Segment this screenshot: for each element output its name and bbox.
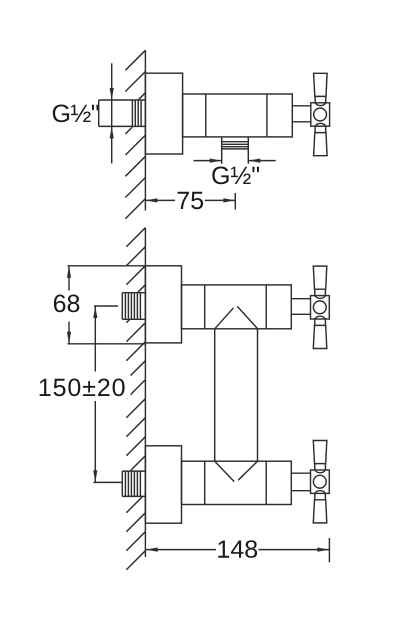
handle stem (lower valve) bbox=[291, 472, 310, 474]
dimension G1/2 pipe diameter bbox=[111, 63, 113, 163]
wall hatching (top view) bbox=[125, 50, 145, 70]
cross handle (top view) bbox=[311, 73, 330, 155]
label G1/2 inch (inlet) bbox=[53, 105, 99, 123]
dimension 150 plus/minus 20 (valve spacing) bbox=[94, 305, 118, 307]
wall escutcheon (lower valve) bbox=[145, 446, 181, 523]
label G1/2 inch (outlet) bbox=[212, 167, 259, 185]
dimension 68 (escutcheon height) bbox=[68, 265, 146, 267]
label 75 bbox=[178, 192, 204, 209]
wall line (bottom view) bbox=[144, 228, 146, 558]
lower chevron (pipe break) bbox=[215, 461, 235, 481]
dimension outlet G1/2 bbox=[194, 160, 222, 162]
valve body (upper valve) bbox=[182, 285, 292, 329]
threaded union behind wall (upper valve) bbox=[122, 292, 145, 294]
threaded union behind wall (lower valve) bbox=[122, 470, 145, 472]
connecting riser pipe bbox=[214, 329, 216, 461]
wall hatching (bottom view) bbox=[126, 228, 145, 247]
handle stem (upper valve) bbox=[291, 298, 310, 300]
valve body (top view) bbox=[183, 94, 293, 137]
wall escutcheon (upper valve) bbox=[145, 266, 181, 343]
label 150+-20 bbox=[40, 379, 125, 397]
dimension 148 (wall to handle front) bbox=[146, 548, 158, 552]
cross handle (upper valve) bbox=[311, 266, 330, 348]
label 68 bbox=[54, 295, 79, 313]
upper chevron (pipe break) bbox=[215, 308, 234, 329]
G1/2 supply nipple behind wall bbox=[99, 99, 146, 101]
wall escutcheon (top view) bbox=[145, 73, 182, 154]
dimension 75 (wall to outlet axis) bbox=[145, 198, 157, 202]
cross handle (lower valve) bbox=[311, 441, 330, 523]
bottom outlet G1/2 thread bbox=[221, 137, 223, 164]
valve body (lower valve) bbox=[182, 461, 292, 504]
wall line (top view) bbox=[144, 50, 146, 210]
handle stem (top view) bbox=[292, 105, 310, 107]
label 148 bbox=[218, 540, 257, 558]
